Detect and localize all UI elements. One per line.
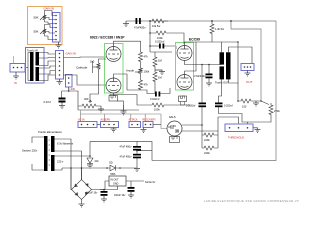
svg-text:10k 5w: 10k 5w <box>152 24 160 28</box>
svg-text:ASSERV: ASSERV <box>101 119 111 122</box>
svg-text:47uF450v: 47uF450v <box>194 74 206 78</box>
HT feed wire to caps <box>90 142 152 161</box>
zener 20v <box>89 142 91 158</box>
connector row: box 1 <box>78 122 97 128</box>
diode psu <box>110 165 116 171</box>
resistor 1M upper <box>153 52 157 70</box>
svg-text:100k: 100k <box>144 70 150 74</box>
wire between boxes <box>97 124 101 126</box>
wire box4 to 6AL5 feed <box>153 124 161 126</box>
svg-text:220 v: 220 v <box>57 160 64 164</box>
tube V2b <box>177 75 192 90</box>
cap 100uF left <box>103 190 105 192</box>
ground below 0.47uf <box>59 103 65 109</box>
svg-text:300: 300 <box>84 97 89 101</box>
wire cap bottom row <box>141 90 156 94</box>
cap 47uF 450v psu1 <box>136 142 138 147</box>
svg-text:THRESHOLD: THRESHOLD <box>228 136 244 140</box>
svg-text:0.022mf: 0.022mf <box>155 40 165 44</box>
wire cathode top <box>99 59 107 61</box>
svg-text:270k: 270k <box>274 109 280 113</box>
bridge rectifier <box>72 180 92 200</box>
heater V2 <box>179 96 187 102</box>
svg-text:Sortie 6v: Sortie 6v <box>145 180 156 184</box>
heater V1 <box>109 96 118 102</box>
resistor 100k top <box>150 31 184 44</box>
wire right outer loop <box>152 21 276 161</box>
wire 270k to threshold <box>248 118 272 122</box>
wire into input connector <box>13 56 15 64</box>
tube V1 green box <box>105 44 124 94</box>
pot 270k <box>261 101 273 118</box>
arrow down on rail <box>121 105 127 115</box>
wire anode rail to 238 <box>201 41 238 43</box>
ground below gain box <box>56 42 62 48</box>
orange gain box <box>28 7 63 45</box>
bridge connections <box>70 168 73 190</box>
svg-text:50K: 50K <box>34 30 39 34</box>
svg-text:47uF450v: 47uF450v <box>134 26 146 30</box>
svg-text:GAIN IN: GAIN IN <box>66 52 76 56</box>
connector ATTACK <box>129 122 141 128</box>
wire V1b anode <box>114 74 141 90</box>
svg-text:Tranfo OUT: Tranfo OUT <box>215 81 229 85</box>
resistor 10k 5w <box>150 19 168 23</box>
cap 47uF 450v top-left <box>136 18 138 24</box>
potentiometer 50K upper <box>40 13 46 22</box>
resistor 1.3k 5w <box>210 21 214 42</box>
ground right of pot row <box>98 106 104 112</box>
wire cathode bottom to pot arrow <box>90 72 99 101</box>
capacitor 0.47uf <box>59 98 66 100</box>
cap 47uF 450v mid <box>208 65 210 74</box>
resistor 47k top <box>139 50 143 66</box>
svg-text:1.3k 5w: 1.3k 5w <box>215 27 224 31</box>
ground below box4 <box>141 128 147 133</box>
cap 100uF right <box>126 180 144 182</box>
svg-text:0.022mf: 0.022mf <box>224 105 233 108</box>
svg-text:ATTACK: ATTACK <box>129 119 138 122</box>
svg-text:Secteur 220v: Secteur 220v <box>22 149 38 153</box>
cap 47uF 450v psu2 <box>136 151 138 154</box>
connector row: box 2 <box>101 122 119 128</box>
svg-text:RECOVERY: RECOVERY <box>143 119 157 122</box>
svg-text:IN: IN <box>14 81 17 85</box>
svg-text:100uF 16v: 100uF 16v <box>86 192 98 195</box>
vertical 150 <box>149 21 151 52</box>
svg-text:1k0: 1k0 <box>90 60 95 64</box>
svg-text:ECC99: ECC99 <box>189 38 200 42</box>
wire V2 cathode rail <box>185 61 222 65</box>
connector gain-in mid <box>56 51 64 80</box>
transformer alim wires <box>32 137 90 190</box>
svg-text:20v: 20v <box>95 159 100 163</box>
wire inner loop <box>231 21 261 101</box>
wire V2a anode up <box>185 42 202 46</box>
svg-text:100k: 100k <box>157 36 163 40</box>
svg-text:LINK: LINK <box>70 87 76 91</box>
ground left of cap <box>123 21 129 27</box>
wires above connector row <box>80 110 82 122</box>
ground after box2 <box>111 128 117 133</box>
ground right of threshold <box>253 128 261 133</box>
ground mid 1M <box>155 70 165 75</box>
ground below mid connector <box>57 79 63 85</box>
svg-text:6.3v filaments: 6.3v filaments <box>57 142 74 146</box>
wire caps bottom <box>219 107 248 124</box>
svg-text:1M: 1M <box>158 76 162 80</box>
ground below input connector <box>13 72 19 79</box>
svg-text:1M: 1M <box>158 59 162 63</box>
svg-text:0.47uf: 0.47uf <box>44 100 51 104</box>
wire 6AL5 out right <box>182 124 202 126</box>
cap 0.022 top <box>159 44 161 49</box>
tube V1b <box>106 78 121 93</box>
rail y110 <box>78 109 139 111</box>
pot 100k Anode <box>135 66 143 78</box>
wire cap top row <box>150 45 159 47</box>
svg-text:0.022mf: 0.022mf <box>150 97 160 101</box>
wire link to cap <box>68 87 70 91</box>
svg-text:47k: 47k <box>144 55 149 59</box>
resistor 1M lower <box>153 70 157 94</box>
svg-text:6922 / ECC188 / 6N1P: 6922 / ECC188 / 6N1P <box>90 36 125 40</box>
wire 238 vertical <box>237 42 239 101</box>
svg-text:47uF 450v: 47uF 450v <box>120 146 133 149</box>
wire threshold top feed <box>218 117 239 124</box>
transformer Tranfo IN <box>26 48 45 84</box>
resistor 100 <box>238 99 261 103</box>
wire grid V1b <box>64 75 107 85</box>
svg-text:6AL5: 6AL5 <box>169 115 176 119</box>
svg-text:IN OUT: IN OUT <box>111 179 120 182</box>
svg-text:OUT: OUT <box>246 80 253 84</box>
connector RECOVERY <box>143 122 153 128</box>
svg-text:Tranfo IN: Tranfo IN <box>27 49 38 53</box>
svg-text:SD: SD <box>109 161 113 165</box>
svg-text:GND: GND <box>113 183 119 186</box>
connector OUT <box>241 64 254 71</box>
svg-text:50K: 50K <box>34 16 39 20</box>
cathode pot V1 <box>93 61 101 73</box>
svg-text:100uF 16v: 100uF 16v <box>114 194 126 197</box>
wires inside gain box <box>45 11 56 40</box>
node dot 231 <box>230 20 232 22</box>
tube V2 green box <box>176 43 194 91</box>
wire grid V1a <box>64 56 107 59</box>
svg-text:0.0033uf: 0.0033uf <box>186 105 196 108</box>
regulator gnd <box>100 186 118 190</box>
transformer IN wires right <box>28 53 55 81</box>
tube V2a <box>177 46 192 61</box>
cap 0.0033 <box>201 65 203 103</box>
svg-text:SG IN: SG IN <box>78 119 85 122</box>
svg-text:47k: 47k <box>144 83 149 87</box>
cap 0.022 bottom <box>155 92 157 97</box>
svg-text:7806: 7806 <box>110 173 116 176</box>
cap2 bottom to psu rail <box>136 158 138 168</box>
svg-text:Anode: Anode <box>126 69 135 73</box>
heater chain wire <box>110 95 152 106</box>
svg-text:47uF 450v: 47uF 450v <box>120 156 133 159</box>
wire top B+ rail <box>126 20 276 22</box>
svg-text:220k: 220k <box>204 151 210 155</box>
svg-text:Cathode: Cathode <box>76 66 88 70</box>
heater 6AL5 <box>170 137 180 143</box>
svg-text:100k: 100k <box>154 108 160 112</box>
transformer OUT wires <box>219 42 253 103</box>
cap 0.022 out <box>215 103 223 105</box>
input connector left <box>10 64 25 73</box>
ground at cap2 bottom <box>134 169 140 172</box>
wire V1a anode <box>114 41 141 50</box>
ground below cap mid <box>206 83 212 86</box>
resistor 220k lower <box>202 117 218 150</box>
arrow down small <box>117 101 127 114</box>
potentiometer 50K lower <box>40 27 46 36</box>
ground below bridge <box>79 204 85 207</box>
resistor 47k bottom <box>139 78 143 90</box>
psu rail y168 <box>62 167 110 169</box>
svg-text:100: 100 <box>242 105 247 109</box>
svg-text:GAIN IN: GAIN IN <box>44 7 54 11</box>
ground below zener <box>87 164 93 169</box>
wire V2b anode <box>185 42 197 75</box>
wire input connector to transformer <box>25 67 28 69</box>
connector THRESHOLD <box>225 124 253 132</box>
svg-text:LADIRE ELECTRONIQUE SSD VARIMU: LADIRE ELECTRONIQUE SSD VARIMU COMPRESSE… <box>204 199 299 203</box>
svg-text:Tranfo alimentation: Tranfo alimentation <box>38 130 62 134</box>
ground stub mid <box>253 101 259 106</box>
ground below OUT <box>245 71 251 77</box>
resistor 220k upper <box>202 133 218 137</box>
connector J-gain vertical <box>53 13 61 43</box>
tube V1a <box>106 47 121 62</box>
svg-text:220k: 220k <box>204 138 210 142</box>
resistor heater 100k <box>152 103 190 107</box>
connector LINK <box>66 75 73 88</box>
wire 1M top rail <box>150 51 172 53</box>
